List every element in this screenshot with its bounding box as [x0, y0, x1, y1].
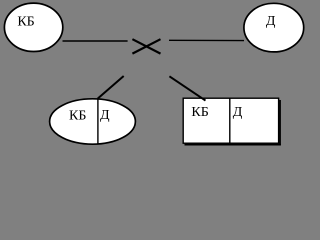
svg-text:КБ: КБ [69, 108, 86, 123]
wire from cross to P2 [169, 39, 244, 41]
svg-text:Д: Д [100, 108, 110, 123]
divider in offspring rectangle [229, 98, 231, 143]
descent line to offspring F1 rectangle [169, 76, 205, 100]
cross symbol × (mating) [132, 39, 160, 53]
offspring rectangle F1 (КБ|Д) [183, 98, 278, 143]
parent ellipse P2 (Д) [244, 3, 304, 52]
svg-text:КБ: КБ [17, 14, 34, 29]
rectangle shadow bottom [185, 144, 281, 146]
svg-text:Д: Д [266, 14, 276, 29]
divider in offspring ellipse [97, 98, 99, 144]
descent line to offspring F1 ellipse [98, 76, 124, 99]
rectangle shadow right [279, 100, 281, 145]
offspring ellipse F1 (КБ|Д) [50, 99, 136, 144]
svg-text:Д: Д [233, 105, 243, 120]
parent ellipse P1 (КБ) [4, 3, 62, 51]
svg-text:КБ: КБ [191, 105, 208, 120]
wire from P1 to cross [63, 40, 128, 42]
